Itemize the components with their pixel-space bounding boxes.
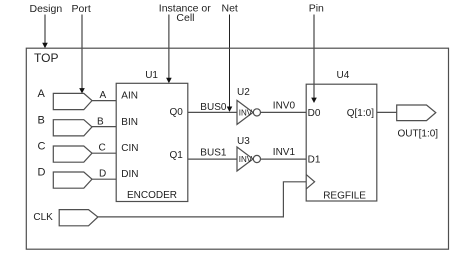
svg-text:D1: D1 [308, 154, 321, 165]
svg-text:C: C [38, 141, 46, 153]
svg-text:CLK: CLK [33, 212, 53, 223]
svg-text:D: D [38, 167, 46, 179]
wire net CLK [98, 182, 306, 217]
svg-text:INV: INV [239, 108, 253, 117]
design block TOP [26, 48, 448, 249]
svg-text:REGFILE: REGFILE [323, 191, 366, 202]
svg-text:B: B [97, 116, 104, 127]
clock pin wedge [306, 175, 314, 189]
callout arrow Instance to U1 [166, 15, 172, 84]
port OUT symbol [397, 105, 436, 121]
label Instance or Cell [159, 3, 211, 24]
svg-text:U3: U3 [237, 136, 250, 147]
wire net B [92, 126, 116, 128]
wire net A [92, 100, 116, 102]
port B symbol [53, 120, 92, 136]
inverter U2 [237, 100, 261, 124]
svg-text:Design: Design [30, 3, 63, 15]
wire net INV0 [261, 111, 307, 113]
wire net BUS1 [188, 158, 237, 160]
instance U1 ENCODER box [116, 83, 188, 201]
svg-text:OUT[1:0]: OUT[1:0] [398, 129, 439, 140]
svg-text:Port: Port [72, 3, 91, 15]
wire net D [92, 178, 116, 180]
port CLK symbol [59, 210, 98, 226]
svg-text:INV1: INV1 [273, 147, 296, 158]
callout arrow Port to port A [79, 15, 85, 94]
svg-text:CIN: CIN [121, 143, 138, 154]
svg-text:Q1: Q1 [169, 150, 183, 161]
svg-text:TOP: TOP [34, 51, 58, 65]
svg-text:U1: U1 [145, 70, 158, 81]
port A symbol [53, 93, 92, 109]
svg-text:BUS0: BUS0 [200, 102, 227, 113]
svg-text:A: A [38, 88, 46, 100]
svg-text:U4: U4 [337, 70, 350, 81]
wire net C [92, 152, 116, 154]
wire net Q to output [377, 111, 397, 113]
instance U4 REGFILE box [306, 84, 377, 201]
svg-text:A: A [100, 90, 107, 101]
svg-text:Net: Net [222, 3, 238, 15]
svg-text:ENCODER: ENCODER [127, 190, 177, 201]
svg-text:D0: D0 [308, 108, 321, 119]
callout arrow Design to TOP [42, 15, 48, 49]
port C symbol [53, 146, 92, 162]
svg-text:D: D [99, 169, 106, 180]
svg-text:Q0: Q0 [169, 107, 183, 118]
svg-text:Cell: Cell [176, 12, 194, 24]
svg-text:INV: INV [239, 155, 253, 164]
svg-text:U2: U2 [237, 87, 250, 98]
wire net BUS0 [188, 111, 237, 113]
svg-text:DIN: DIN [121, 169, 138, 180]
inverter U3 [237, 147, 261, 171]
svg-text:BIN: BIN [121, 117, 138, 128]
svg-text:C: C [99, 143, 106, 154]
svg-text:BUS1: BUS1 [200, 148, 227, 159]
svg-text:INV0: INV0 [273, 101, 296, 112]
callout arrow Pin to D0 [311, 15, 317, 104]
wire net INV1 [261, 158, 307, 160]
svg-text:Pin: Pin [309, 3, 324, 15]
svg-text:Q[1:0]: Q[1:0] [347, 108, 374, 119]
callout arrow Net to BUS0 [227, 15, 233, 112]
svg-text:B: B [38, 114, 45, 126]
svg-text:AIN: AIN [121, 91, 138, 102]
port D symbol [53, 172, 92, 188]
